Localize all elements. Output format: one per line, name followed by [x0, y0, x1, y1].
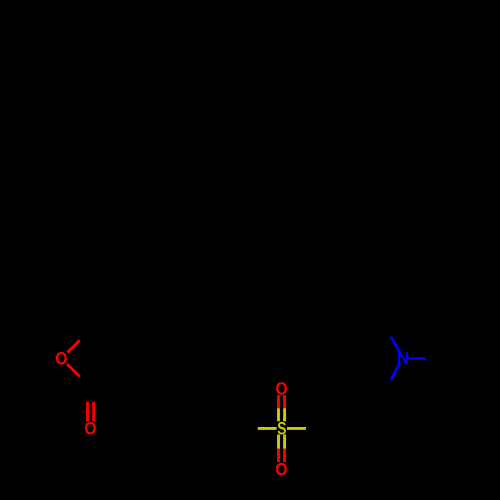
sulfonyl oxygen atom O5 (bottom)	[276, 463, 287, 475]
wire bond S to C (right yellow half)	[287, 427, 306, 430]
wire bond N to C (down-left blue half)	[391, 364, 400, 380]
wire bond O1 to carbonyl C2 (down-right red half)	[67, 364, 80, 377]
double bond C2=O3 line 1	[86, 402, 89, 422]
double bond S=O4 line 1 upper red half	[277, 395, 280, 408]
wire bond O1 to C (up-right red half)	[68, 340, 80, 352]
double bond S=O4 line 2 lower yellow half	[283, 408, 286, 421]
nitrogen atom N	[398, 352, 408, 364]
double bond S=O5 line 2 upper yellow half	[283, 435, 286, 449]
double bond S=O5 line 2 lower red half	[283, 449, 286, 462]
wire bond N to C (up-left blue half)	[391, 337, 400, 353]
wire bond C to S (left yellow half)	[258, 427, 277, 430]
wire bond N to C (right blue half)	[408, 357, 426, 360]
double bond S=O5 line 1 upper yellow half	[277, 435, 280, 449]
sulfur atom S	[278, 422, 286, 435]
double bond C2=O3 line 2	[92, 402, 95, 422]
double bond S=O4 line 1 lower yellow half	[277, 408, 280, 421]
sulfonyl oxygen atom O4 (top)	[276, 382, 287, 394]
ester oxygen atom O1	[56, 352, 67, 364]
double bond S=O4 line 2 upper red half	[283, 395, 286, 408]
carbonyl oxygen atom O3	[85, 422, 96, 434]
double bond S=O5 line 1 lower red half	[277, 449, 280, 462]
